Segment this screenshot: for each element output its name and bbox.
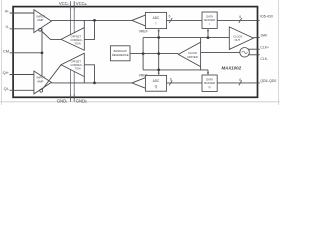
svg-text:ADC: ADC [153,16,160,20]
bus slash Q-2 [239,80,242,85]
node vref junction [142,52,145,55]
wire Q bus buffer to pin [217,82,260,84]
svg-text:MAX1002: MAX1002 [222,65,242,70]
wire offset Q input tap [83,77,85,83]
wire offset Q output [42,65,61,90]
svg-text:BANDGAP: BANDGAP [114,49,127,53]
ADC I [145,12,166,28]
bandgap reference [110,46,130,61]
svg-text:Q: Q [209,85,211,89]
clock driver [178,42,200,66]
svg-text:VCCE: VCCE [76,1,87,6]
wire CLK- [248,54,260,56]
wire ADC Q ref arrow [158,73,160,76]
svg-text:QD5–QD0: QD5–QD0 [260,79,276,83]
svg-text:VREF: VREF [139,30,148,34]
wire I bus ADC to buffer [167,19,202,21]
svg-text:II+: II+ [5,8,10,13]
svg-text:DRIVER: DRIVER [188,55,198,59]
svg-text:AMP: AMP [37,18,43,22]
wire QI+ [10,74,34,76]
wire Q feedback up [84,65,94,83]
wire I signal [51,19,131,21]
svg-text:BUFFER: BUFFER [204,81,215,85]
clock input receiver circle [240,48,250,58]
svg-text:I: I [156,22,157,26]
svg-text:OFFSET: OFFSET [71,34,82,38]
svg-text:6: 6 [170,78,172,82]
input amp Q [34,71,52,94]
wire buffer I clock with arrow [207,30,209,37]
svg-text:CM: CM [3,48,9,53]
svg-text:VCCI: VCCI [59,1,69,6]
wire QI- [10,89,34,91]
wire vref riser [142,38,144,70]
wire Q signal [51,82,131,84]
node ADC I ref [157,36,160,39]
svg-text:ID5–ID0: ID5–ID0 [260,14,273,18]
wire I reference/clock rail [143,37,229,39]
wire II- [10,28,34,30]
node buffer I clock [207,36,210,39]
VCCE internal rail [73,10,75,33]
node clock tap [157,52,160,55]
node Q output [93,82,96,85]
wire I diff fanout [132,15,146,26]
svg-text:BUFFER: BUFFER [204,18,215,22]
bus slash Q-1 [169,80,172,85]
VCCI supply rail tick [69,1,71,9]
svg-text:CLK+: CLK+ [260,46,269,50]
clock out buffer [229,27,253,50]
wire I feedback down [84,20,94,39]
svg-text:TION: TION [74,41,80,45]
wire buffer Q clock with arrow [207,70,209,73]
wire offset I output [41,31,61,40]
wire CM [10,52,42,54]
node I output [93,19,96,22]
node CM junction [41,51,44,54]
svg-text:CLOCK: CLOCK [188,51,197,55]
svg-text:DATA: DATA [206,14,213,18]
bus slash I-1 [169,18,172,23]
wire Q diff fanout [132,78,146,89]
wire II+ [10,12,34,14]
svg-text:TION: TION [74,67,80,71]
wire I bus buffer to pin [217,19,260,21]
offset correction amp I [61,28,84,51]
wire ADC I ref with arrow [158,31,160,74]
input amp I [34,10,52,33]
svg-text:GNDI: GNDI [57,98,67,103]
wire offset I input tap [83,20,85,27]
wire Q reference/clock rail [143,69,208,71]
IC outline [13,7,257,98]
wire DAV out [254,37,260,39]
offset I injection bubble [39,28,42,31]
node ADC Q ref [157,69,160,72]
svg-text:ADC: ADC [153,79,160,83]
ADC Q [145,75,166,91]
svg-text:DAV: DAV [261,34,268,38]
wire bandgap out [130,53,178,55]
wire circle to clock driver [201,52,240,54]
VCCI internal rail [69,10,71,35]
svg-text:CLK-: CLK- [260,57,268,61]
svg-text:REFERENCE: REFERENCE [112,53,129,57]
svg-text:6: 6 [239,15,241,19]
svg-text:6: 6 [239,78,241,82]
data buffer I [202,12,217,29]
svg-text:6: 6 [169,15,171,19]
svg-text:CLOCK: CLOCK [233,35,242,39]
GNDI tick [69,95,71,102]
data buffer Q [202,75,217,92]
VCCE supply rail tick [73,1,75,9]
svg-text:CORREC-: CORREC- [71,63,83,67]
svg-text:OUT: OUT [234,38,240,42]
wire driver corner to Q rail [200,67,202,70]
CM rail to both amps [41,28,43,76]
svg-text:OFFSET: OFFSET [71,60,82,64]
wire CLK+ [248,48,260,50]
bus slash I-2 [239,18,242,23]
svg-text:CORREC-: CORREC- [71,38,83,42]
svg-text:AMP: AMP [37,79,43,83]
offset Q injection bubble [40,89,43,92]
offset correction amp Q [61,53,84,76]
GNDE tick [73,95,75,102]
wire Q bus ADC to buffer [167,82,202,84]
svg-text:GNDE: GNDE [76,98,87,103]
wire driver corner to I rail [200,38,202,43]
svg-text:QI-: QI- [4,86,10,91]
page rules (table cell edges) [1,0,3,105]
svg-text:DATA: DATA [206,77,213,81]
svg-text:QI+: QI+ [3,70,10,75]
